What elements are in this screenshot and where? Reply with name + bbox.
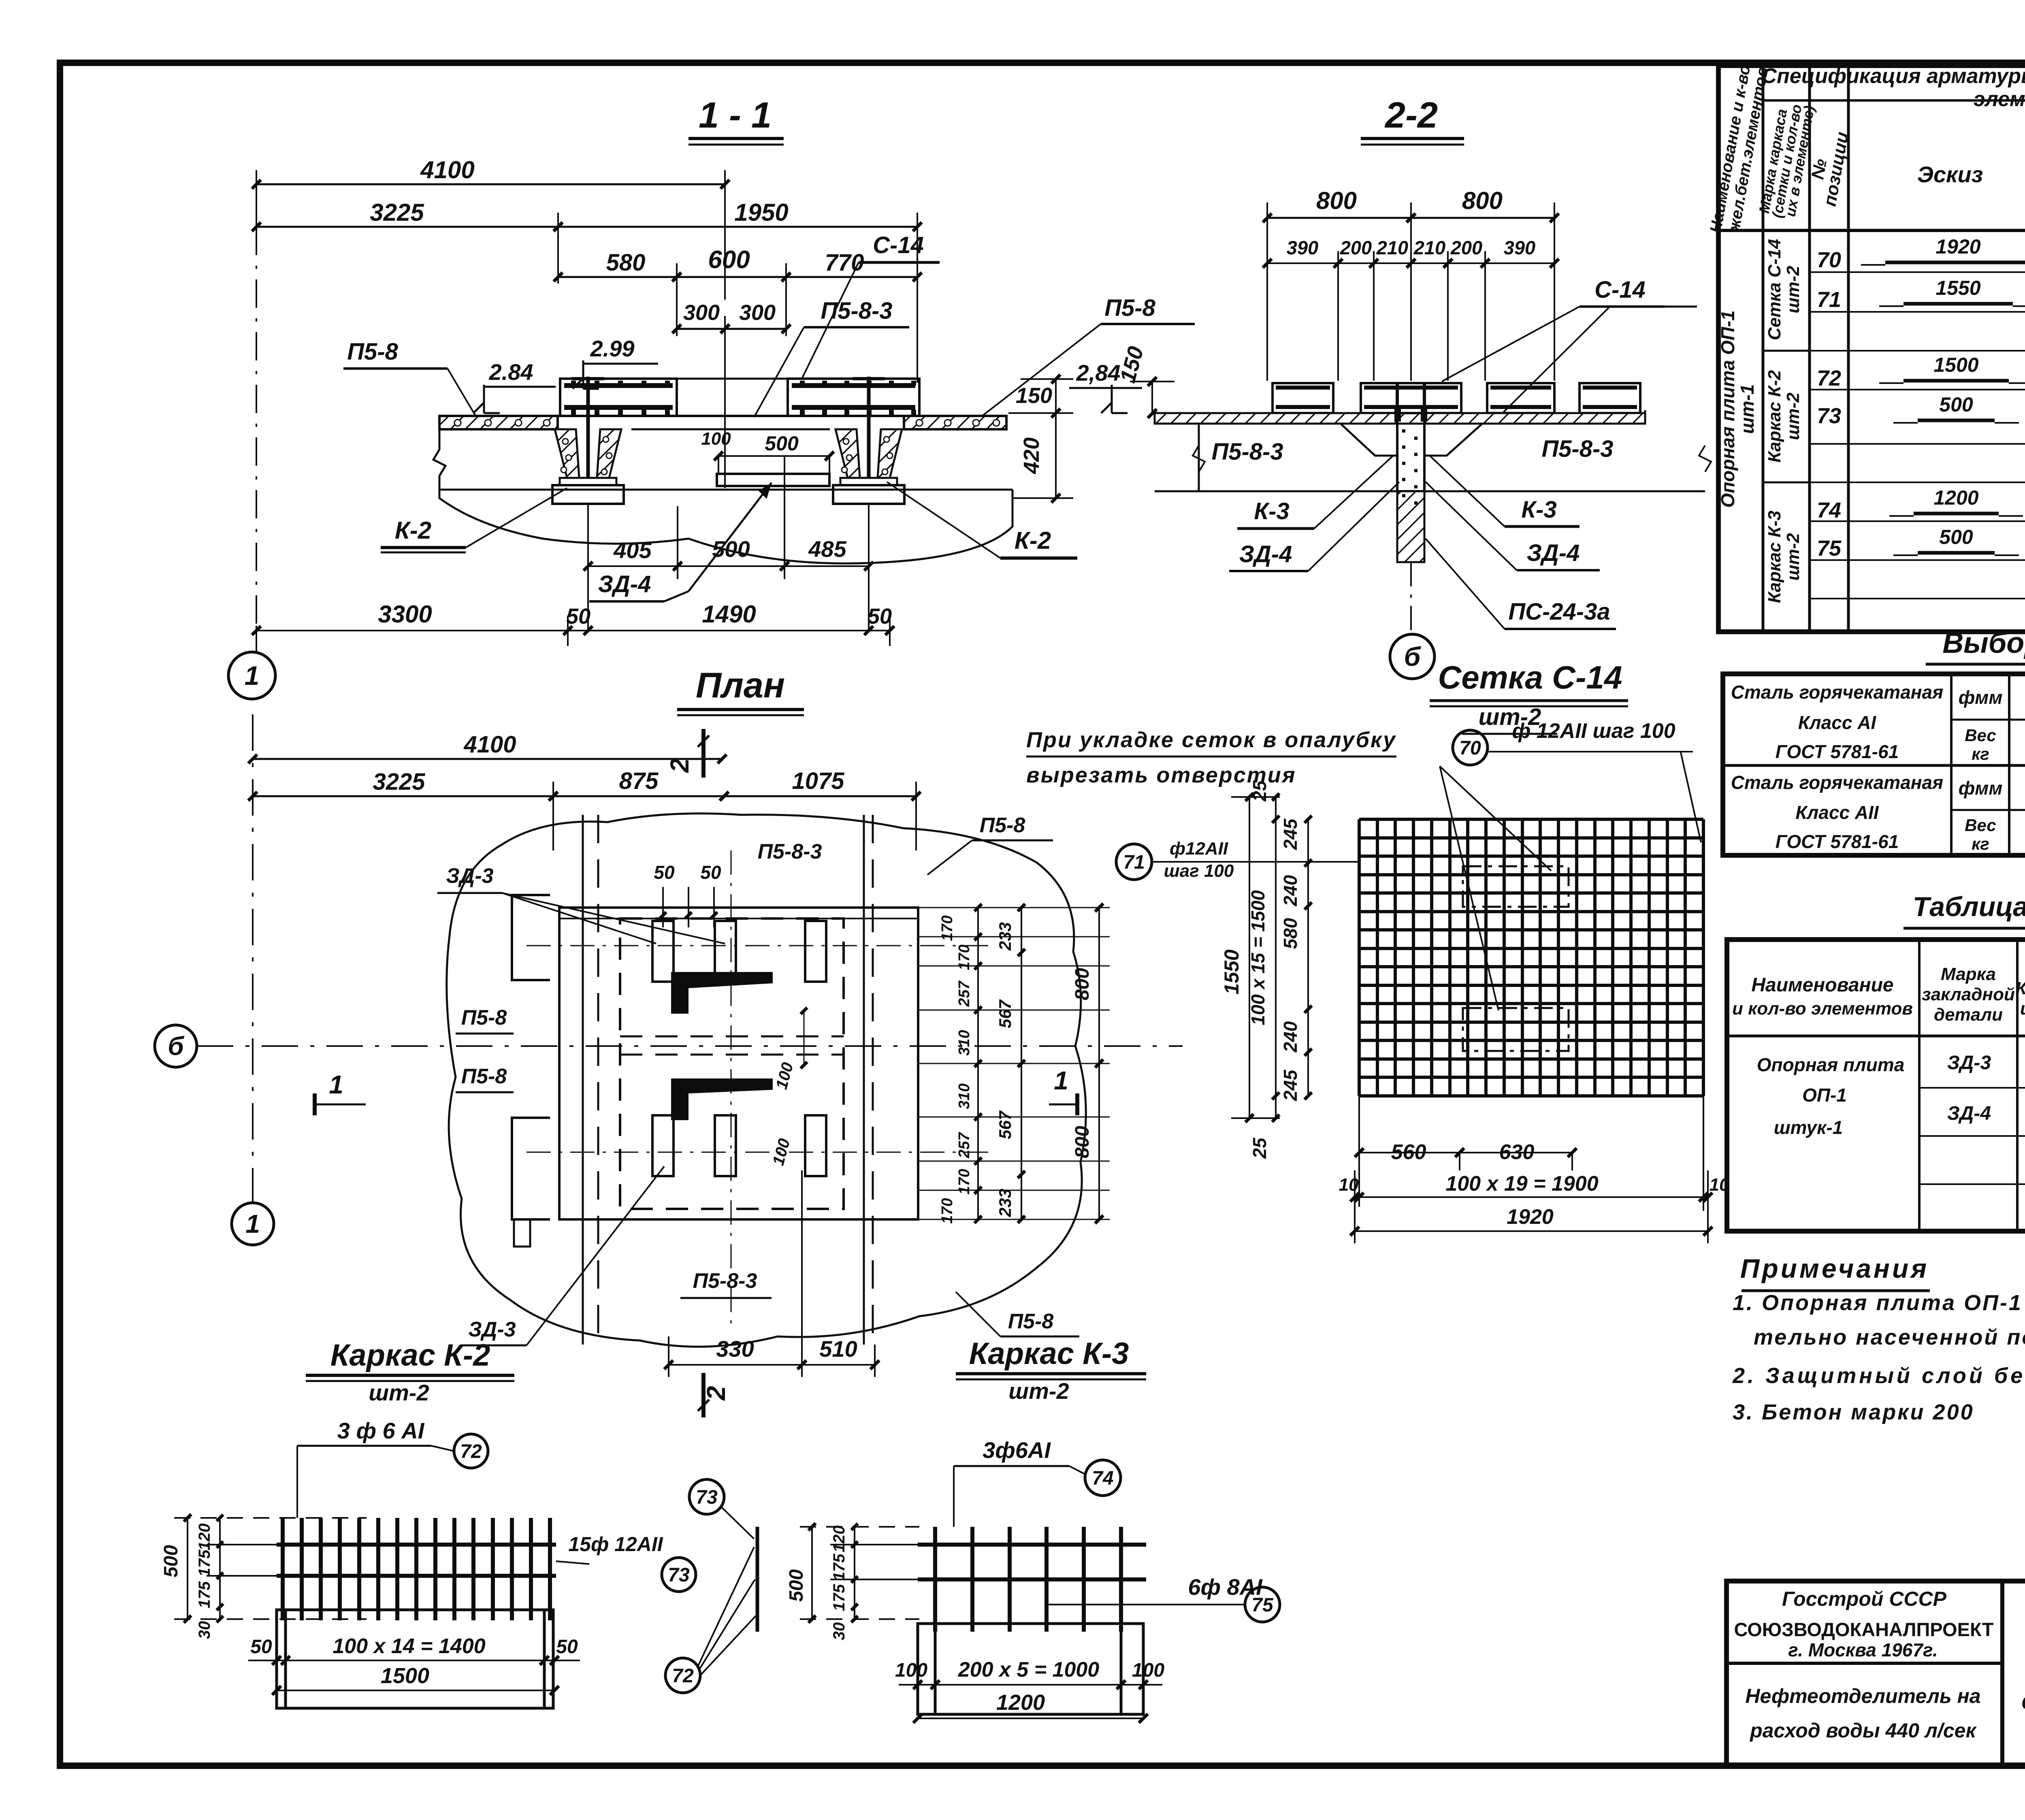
label C-14 sec1-1 — [802, 232, 940, 379]
svg-text:Нефтеотделитель на: Нефтеотделитель на — [1745, 1685, 1980, 1707]
axis circle b sec2-2 — [1390, 634, 1435, 679]
plan blob outline — [447, 814, 1086, 1347]
mesh side verticals — [1358, 1096, 1360, 1153]
svg-text:170: 170 — [939, 915, 956, 941]
svg-text:800: 800 — [1072, 968, 1093, 1000]
svg-text:3 ф 6 АI: 3 ф 6 АI — [337, 1418, 425, 1443]
svg-text:Таблица закладных деталей: Таблица закладных деталей — [1913, 891, 2025, 922]
svg-text:б: б — [1404, 641, 1422, 671]
label П5-8 left sec1-1 — [343, 339, 476, 416]
svg-text:1550: 1550 — [1220, 949, 1243, 994]
svg-text:Каркас К-2: Каркас К-2 — [1765, 370, 1784, 462]
svg-text:73: 73 — [668, 1564, 690, 1586]
svg-text:71: 71 — [1123, 852, 1145, 873]
svg-text:1: 1 — [245, 661, 260, 690]
dim 3300/50/1490/50 bottom sec1-1 — [252, 601, 894, 646]
svg-text:П5-8-3: П5-8-3 — [821, 298, 892, 324]
K-3 left dim chain — [786, 1523, 919, 1640]
svg-text:120: 120 — [830, 1526, 848, 1553]
label K-3 right sec2-2 — [1430, 456, 1579, 526]
svg-text:и кол-во элементов: и кол-во элементов — [1732, 999, 1913, 1019]
svg-text:Госстрой СССР: Госстрой СССР — [1782, 1588, 1947, 1610]
svg-text:485: 485 — [808, 536, 846, 562]
svg-text:1075: 1075 — [792, 768, 844, 794]
label C-14 sec2-2 — [1442, 277, 1697, 417]
label ZD-4 right sec2-2 — [1426, 482, 1600, 570]
svg-text:Каркас К-3: Каркас К-3 — [969, 1336, 1129, 1371]
svg-text:510: 510 — [819, 1336, 857, 1362]
svg-text:К-2: К-2 — [395, 517, 431, 544]
svg-text:100: 100 — [895, 1660, 927, 1681]
svg-text:ф12АII: ф12АII — [1170, 839, 1228, 859]
svg-text:2,84: 2,84 — [1076, 360, 1121, 386]
svg-text:Сетка С-14: Сетка С-14 — [1765, 239, 1784, 340]
svg-text:Вес: Вес — [1965, 726, 1996, 745]
svg-text:50: 50 — [700, 862, 721, 883]
svg-text:210: 210 — [1413, 237, 1445, 258]
svg-text:ГОСТ 5781-61: ГОСТ 5781-61 — [1776, 741, 1899, 762]
labels P5-8-3 sec2-2 — [1211, 436, 1613, 465]
svg-text:Класс АI: Класс АI — [1798, 712, 1877, 733]
K-3 bottom bent bar rect — [918, 1624, 1143, 1714]
svg-text:233: 233 — [995, 1189, 1015, 1217]
K-2 label 15F12AII with circles 73 — [556, 1479, 754, 1592]
label K-2 left — [381, 488, 567, 552]
svg-text:74: 74 — [1817, 498, 1841, 522]
svg-text:штук-1: штук-1 — [1774, 1117, 1843, 1138]
svg-text:шт-2: шт-2 — [1783, 392, 1803, 440]
svg-text:2.84: 2.84 — [489, 359, 533, 385]
svg-text:100: 100 — [701, 429, 731, 449]
K-2 left dim chain — [160, 1514, 367, 1639]
svg-text:К-3: К-3 — [1521, 497, 1556, 523]
dim 300/300 sec1-1 — [672, 300, 791, 488]
section 2-2 title — [1361, 95, 1464, 145]
label П5-8 right sec1-1 — [964, 295, 1195, 430]
svg-text:элемент: элемент — [1974, 87, 2025, 111]
dim 3225/1950 sec1-1 — [252, 199, 922, 383]
svg-text:П5-8-3: П5-8-3 — [1211, 439, 1283, 465]
svg-text:50: 50 — [250, 1636, 272, 1658]
svg-text:2: 2 — [665, 758, 694, 773]
plan axis circles — [0, 0, 0, 0]
svg-text:10: 10 — [1710, 1175, 1729, 1195]
mesh bottom dims 560/630 — [1355, 1096, 1577, 1207]
svg-text:600: 600 — [708, 246, 750, 274]
spec rows data — [1817, 235, 2025, 560]
svg-text:П5-8-3: П5-8-3 — [693, 1269, 757, 1293]
svg-text:1: 1 — [245, 1209, 260, 1238]
svg-text:шт-1: шт-1 — [1737, 384, 1758, 434]
svg-text:30: 30 — [196, 1621, 213, 1639]
sec2-2 plate blocks — [1273, 383, 1640, 413]
svg-text:175: 175 — [196, 1581, 213, 1608]
svg-text:Класс АII: Класс АII — [1795, 802, 1879, 823]
svg-text:шт-2: шт-2 — [1783, 266, 1803, 313]
svg-text:Наименование: Наименование — [1751, 974, 1893, 996]
svg-text:фмм: фмм — [1959, 778, 2003, 799]
svg-text:П5-8-3: П5-8-3 — [1541, 436, 1613, 462]
svg-text:П5-8: П5-8 — [461, 1065, 507, 1088]
svg-text:74: 74 — [1092, 1468, 1113, 1489]
svg-text:310: 310 — [956, 1030, 973, 1055]
svg-text:3225: 3225 — [370, 199, 424, 226]
label ZD-4 left sec2-2 — [1229, 482, 1399, 571]
sec2-2 break marks — [1193, 445, 1711, 472]
mesh left dim chain segments — [1280, 816, 1312, 1101]
svg-text:580: 580 — [1280, 918, 1301, 949]
svg-text:420: 420 — [1019, 437, 1044, 474]
dim 390-200-210-210-200-390 sec2-2 — [1263, 237, 1559, 381]
notes lines — [1732, 1291, 2025, 1424]
title Primechanija — [1740, 1253, 1930, 1291]
svg-text:Каркас К-3: Каркас К-3 — [1765, 511, 1784, 603]
svg-text:б: б — [168, 1031, 185, 1061]
mesh bottom dim 1920 — [1350, 1205, 1712, 1236]
svg-text:Каркас К-2: Каркас К-2 — [330, 1338, 490, 1372]
dim 150 rotated right sec1-1 — [1115, 344, 1174, 418]
plan labels — [437, 814, 1079, 1345]
plan axis circle 6 — [155, 1025, 1183, 1067]
svg-text:Выборка арматуры: Выборка арматуры — [1942, 627, 2025, 659]
svg-text:1500: 1500 — [1933, 354, 1978, 376]
svg-text:детали: детали — [1934, 1005, 2003, 1025]
plan right dim chain 233/567/567/233 — [995, 904, 1025, 1223]
sec2-2 central column PS-24-3a — [1394, 409, 1427, 632]
svg-text:560: 560 — [1391, 1140, 1426, 1164]
plan dim 4100 — [248, 731, 727, 763]
svg-text:К-3: К-3 — [1254, 498, 1289, 524]
sec1-1 T-rib left — [552, 377, 624, 632]
svg-text:Эскиз: Эскиз — [1917, 162, 1983, 187]
svg-text:Опорная плита: Опорная плита — [1757, 1054, 1905, 1075]
svg-text:2: 2 — [701, 1386, 731, 1401]
svg-text:15ф 12АII: 15ф 12АII — [568, 1533, 663, 1556]
svg-text:П5-8-3: П5-8-3 — [758, 840, 822, 863]
svg-text:Марка: Марка — [1941, 964, 1996, 984]
svg-text:ЗД-3: ЗД-3 — [446, 864, 493, 888]
mesh left dim 1550 — [1220, 793, 1280, 1122]
svg-text:2.99: 2.99 — [590, 336, 635, 361]
svg-text:233: 233 — [995, 922, 1015, 951]
svg-text:тельно насеченной поверхности: тельно насеченной поверхности плит-покры… — [1754, 1325, 2025, 1349]
svg-text:1490: 1490 — [702, 601, 756, 628]
svg-text:72: 72 — [460, 1441, 482, 1462]
svg-text:567: 567 — [995, 1110, 1015, 1139]
svg-text:С-14: С-14 — [1594, 277, 1646, 303]
svg-text:170: 170 — [956, 1169, 973, 1194]
svg-text:кг: кг — [1972, 834, 1989, 853]
note text 'При укладке...' — [1026, 728, 1396, 787]
svg-text:500: 500 — [1939, 393, 1973, 416]
svg-text:200: 200 — [1340, 237, 1372, 258]
svg-text:закладной: закладной — [1922, 985, 2015, 1004]
svg-text:кг: кг — [1972, 744, 1989, 763]
svg-text:ЗД-3: ЗД-3 — [1947, 1052, 1991, 1074]
sec1-1 ZD-4 channel block — [688, 474, 829, 490]
plan section marks 1 left and right — [315, 1066, 1077, 1115]
plan section mark 2 bottom — [698, 1373, 731, 1417]
svg-text:4100: 4100 — [420, 156, 474, 183]
K-3 bottom dim 1200 — [913, 1690, 1148, 1723]
svg-text:П5-8: П5-8 — [347, 339, 398, 365]
vyborka table texts — [1731, 682, 2025, 853]
plan rotated 100 labels — [769, 1008, 807, 1168]
svg-text:10: 10 — [1339, 1175, 1359, 1195]
K-3 callout 3F6AI with circle 74 — [954, 1437, 1121, 1527]
svg-text:Спецификация арматуры на 1 жел: Спецификация арматуры на 1 железобетонны… — [1761, 64, 2025, 88]
svg-text:1500: 1500 — [381, 1664, 429, 1688]
dim 580/600/770 sec1-1 — [554, 246, 922, 336]
svg-text:70: 70 — [1817, 248, 1841, 272]
svg-text:3. Бетон марки 200: 3. Бетон марки 200 — [1733, 1400, 1974, 1424]
plan plate dashed outline — [620, 919, 844, 1209]
label K-3 left sec2-2 — [1237, 456, 1393, 529]
svg-text:План: План — [696, 665, 785, 705]
plan bottom dims 330/510 — [664, 1170, 879, 1377]
svg-text:П5-8: П5-8 — [461, 1006, 507, 1029]
svg-text:1: 1 — [329, 1070, 343, 1099]
svg-text:Примечания: Примечания — [1740, 1253, 1929, 1283]
svg-text:ОП-1: ОП-1 — [1802, 1085, 1847, 1106]
svg-text:150: 150 — [1016, 384, 1052, 408]
title Vyborka armatury — [1926, 627, 2025, 664]
svg-text:4100: 4100 — [463, 731, 516, 758]
svg-text:170: 170 — [939, 1198, 956, 1223]
plan right dim chain 800/800 — [1072, 904, 1103, 1223]
svg-text:72: 72 — [672, 1665, 694, 1687]
sec1-1 plate block left — [560, 379, 677, 416]
svg-text:г. Москва 1967г.: г. Москва 1967г. — [1788, 1639, 1938, 1660]
svg-text:100: 100 — [1132, 1660, 1164, 1681]
svg-text:С-14: С-14 — [873, 232, 924, 258]
svg-text:Опорная плита ОП-1: Опорная плита ОП-1 — [1717, 310, 1738, 507]
svg-text:75: 75 — [1251, 1594, 1274, 1616]
K-3 cage grid — [918, 1527, 1146, 1632]
svg-text:3ф6АI: 3ф6АI — [983, 1437, 1051, 1463]
svg-text:390: 390 — [1287, 237, 1318, 258]
plan dim 3225/875/1075 — [248, 768, 921, 850]
mesh left dim 100x15=1500 and 25s — [1247, 780, 1279, 1159]
svg-text:3225: 3225 — [373, 769, 425, 795]
sec1-1 slab with hatch — [439, 379, 1006, 429]
svg-text:50: 50 — [566, 604, 590, 629]
karkas K-2 title — [306, 1338, 514, 1405]
svg-text:500: 500 — [1939, 526, 1973, 548]
mesh grid C-14 — [1359, 819, 1703, 1096]
svg-text:1. Опорная плита ОП-1 бетониру: 1. Опорная плита ОП-1 бетонируется на ме… — [1733, 1291, 2025, 1315]
svg-text:1: 1 — [1054, 1066, 1068, 1095]
svg-text:штук: штук — [2020, 999, 2025, 1019]
svg-text:175: 175 — [196, 1549, 213, 1577]
svg-text:875: 875 — [619, 768, 659, 794]
svg-text:шт-2: шт-2 — [369, 1380, 429, 1405]
table: specification armatury grid — [1718, 66, 2025, 632]
K-2 side view bar with circle 72 — [665, 1527, 757, 1693]
svg-text:фмм: фмм — [1959, 687, 2003, 708]
plan panel joint lines — [583, 815, 873, 1345]
svg-text:567: 567 — [995, 999, 1015, 1028]
svg-text:100 x 15 = 1500: 100 x 15 = 1500 — [1247, 890, 1268, 1025]
svg-text:500: 500 — [160, 1545, 182, 1577]
vyborka table grid — [1723, 674, 2025, 855]
svg-text:70: 70 — [1459, 737, 1481, 759]
axis line section 1-1 — [228, 227, 275, 699]
svg-text:П5-8: П5-8 — [980, 814, 1025, 837]
plan big solid rect — [559, 908, 918, 1219]
svg-text:71: 71 — [1817, 288, 1841, 312]
svg-text:200: 200 — [1450, 237, 1482, 258]
svg-text:25: 25 — [1249, 780, 1270, 802]
spec table left rotated cells — [1717, 239, 1803, 603]
svg-text:Кол-во: Кол-во — [2016, 978, 2025, 998]
svg-text:2-2: 2-2 — [1384, 95, 1438, 136]
plan title — [677, 665, 804, 715]
svg-text:ЗД-4: ЗД-4 — [1239, 541, 1292, 567]
mesh cutout dash rects — [1463, 866, 1569, 1051]
svg-text:К-2: К-2 — [1015, 527, 1051, 554]
dim 405/500/485 — [584, 456, 873, 579]
setka title — [1430, 659, 1628, 734]
svg-text:Сетка С-14: Сетка С-14 — [1438, 659, 1622, 695]
svg-text:ЗД-4: ЗД-4 — [598, 571, 651, 597]
title Tablica zakladnyh detalej — [1904, 891, 2025, 928]
svg-text:1920: 1920 — [1935, 235, 1980, 258]
svg-text:1920: 1920 — [1507, 1205, 1554, 1229]
K-2 cage grid — [277, 1518, 556, 1620]
plan notch brackets left — [512, 895, 550, 1247]
svg-text:257: 257 — [956, 980, 973, 1007]
dim 100/500 above ZD-4 — [701, 429, 834, 473]
svg-text:120: 120 — [196, 1524, 213, 1551]
svg-text:1550: 1550 — [1935, 277, 1980, 299]
svg-text:ПС-24-3а: ПС-24-3а — [1508, 599, 1610, 625]
plan axis circle 1 bottom — [232, 714, 274, 1245]
svg-text:245: 245 — [1280, 1069, 1301, 1101]
svg-text:310: 310 — [956, 1083, 973, 1109]
svg-text:170: 170 — [956, 944, 973, 970]
svg-text:405: 405 — [613, 537, 652, 563]
svg-text:Сталь горячекатаная: Сталь горячекатаная — [1731, 682, 1943, 703]
K-2 bottom bent bar rect — [277, 1610, 553, 1708]
svg-text:1200: 1200 — [996, 1690, 1045, 1715]
svg-text:300: 300 — [739, 300, 776, 325]
svg-text:800: 800 — [1316, 187, 1357, 214]
plan section mark 2 top — [665, 729, 709, 778]
plan circled 71 callout — [1116, 839, 1359, 881]
svg-text:ГОСТ 5781-61: ГОСТ 5781-61 — [1776, 831, 1899, 852]
svg-text:Вес: Вес — [1965, 816, 1996, 835]
svg-text:175: 175 — [830, 1554, 848, 1581]
svg-text:210: 210 — [1376, 237, 1408, 258]
svg-text:72: 72 — [1817, 366, 1841, 390]
svg-text:расход воды 440 л/сек: расход воды 440 л/сек — [1749, 1719, 1977, 1742]
svg-text:800: 800 — [1072, 1126, 1093, 1158]
svg-text:500: 500 — [786, 1569, 807, 1602]
title block org cell — [1734, 1588, 1993, 1742]
svg-text:ЗД-4: ЗД-4 — [1527, 540, 1580, 566]
svg-text:245: 245 — [1280, 818, 1301, 850]
sec1-1 T-rib right — [833, 377, 904, 632]
svg-text:100 x 14 = 1400: 100 x 14 = 1400 — [333, 1635, 485, 1658]
svg-text:100 x 19 = 1900: 100 x 19 = 1900 — [1445, 1172, 1598, 1196]
dim 150/420 right sec1-1 — [1008, 375, 1073, 503]
svg-text:ЗД-4: ЗД-4 — [1947, 1103, 1991, 1124]
svg-text:П5-8: П5-8 — [1104, 295, 1155, 321]
svg-text:3300: 3300 — [378, 601, 432, 628]
svg-text:П5-8: П5-8 — [1008, 1310, 1054, 1333]
plan top dims 50 50 — [654, 862, 721, 927]
svg-text:500: 500 — [712, 536, 750, 562]
svg-text:630: 630 — [1499, 1140, 1535, 1164]
title block grid — [1727, 1581, 2025, 1765]
karkas K-3 title — [956, 1336, 1146, 1404]
plan ZD-4 angle marks — [671, 972, 773, 1120]
K-3 bottom dims 100/1000/100 — [895, 1658, 1164, 1689]
dim 4100 sec1-1 — [252, 156, 729, 300]
label PS-24-3a — [1426, 539, 1616, 629]
svg-text:шт-2: шт-2 — [1008, 1378, 1069, 1404]
label K-2 right — [887, 482, 1077, 558]
svg-text:ф 12АII шаг 100: ф 12АII шаг 100 — [1512, 719, 1675, 743]
svg-text:50: 50 — [868, 604, 892, 629]
sec1-1 ground break curve — [433, 429, 1013, 563]
section 1-1 title — [688, 95, 784, 145]
svg-text:1200: 1200 — [1933, 486, 1978, 509]
K-3 label 6F8AI with circle 75 — [1045, 1574, 1280, 1622]
svg-text:73: 73 — [1817, 404, 1841, 428]
svg-text:скребкового механизма: скребкового механизма — [2021, 1687, 2025, 1714]
svg-text:580: 580 — [606, 249, 646, 276]
setka callout 70 — [1440, 719, 1701, 1010]
zakladnye table texts — [1732, 944, 2025, 1217]
svg-text:200 x 5 = 1000: 200 x 5 = 1000 — [958, 1658, 1100, 1681]
svg-text:240: 240 — [1280, 875, 1301, 906]
svg-text:300: 300 — [683, 300, 720, 325]
elevation 2.84 left — [473, 359, 556, 413]
sec2-2 P5-8-3 bodies — [1155, 410, 1705, 491]
K-2 bottom dims 50/1400/50 — [248, 1635, 580, 1665]
plan right dim chains — [939, 904, 982, 1224]
elevation 2.99 — [573, 336, 658, 389]
svg-text:257: 257 — [956, 1132, 973, 1158]
label ZD-4 sec1-1 — [589, 483, 772, 601]
svg-text:800: 800 — [1462, 187, 1503, 214]
svg-text:25: 25 — [1249, 1137, 1270, 1159]
svg-text:175: 175 — [830, 1584, 848, 1611]
svg-text:50: 50 — [556, 1636, 578, 1658]
svg-text:СОЮЗВОДОКАНАЛПРОЕКТ: СОЮЗВОДОКАНАЛПРОЕКТ — [1734, 1619, 1993, 1640]
zakladnye table grid — [1727, 940, 2025, 1231]
plan construction dash-dot lines — [526, 850, 988, 1328]
svg-text:При укладке сеток в опалубку: При укладке сеток в опалубку — [1026, 728, 1396, 752]
dim 800/800 sec2-2 — [1263, 187, 1559, 267]
svg-text:Сталь горячекатаная: Сталь горячекатаная — [1731, 772, 1943, 793]
svg-text:шаг 100: шаг 100 — [1164, 861, 1234, 881]
svg-text:1950: 1950 — [734, 199, 788, 226]
K-2 callout 3F6AI with circle 72 — [297, 1418, 488, 1518]
svg-text:50: 50 — [654, 862, 675, 883]
spec table headers — [1707, 63, 2025, 234]
svg-text:2. Защитный слой бетона для ар: 2. Защитный слой бетона для арматуры пли… — [1732, 1364, 2025, 1388]
svg-text:75: 75 — [1817, 536, 1842, 560]
sec1-1 plate block right — [788, 379, 919, 416]
svg-text:500: 500 — [765, 432, 799, 455]
title block subject cell — [2021, 1598, 2025, 1714]
svg-text:330: 330 — [716, 1336, 754, 1362]
mesh bottom dims 10/1900/10 — [1339, 1096, 1729, 1243]
label П5-8-3 sec1-1 — [754, 298, 909, 417]
